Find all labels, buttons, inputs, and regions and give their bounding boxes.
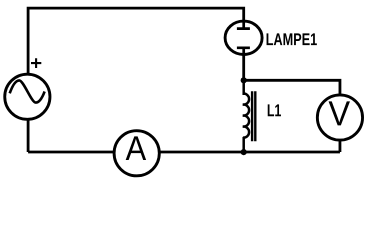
lamp LAMPE1 xyxy=(225,21,262,55)
junction node top xyxy=(241,77,247,83)
wire: inductor branch stubs xyxy=(242,80,245,152)
voltmeter circle xyxy=(317,95,362,140)
voltmeter V xyxy=(317,95,362,140)
letter A xyxy=(126,136,146,160)
AC source V1 xyxy=(5,58,50,119)
inductor L1 core lines xyxy=(252,91,255,141)
polarity mark + xyxy=(31,58,41,68)
wire: left loop (left vertical, top horizontal, lamp branch vertical) xyxy=(28,8,244,152)
lamp envelope xyxy=(225,21,262,54)
AC source sine wave xyxy=(10,80,45,102)
ammeter circle xyxy=(114,131,159,176)
ammeter A xyxy=(114,131,159,176)
label L1 xyxy=(268,104,281,116)
wire: voltmeter branch (top junction to V top, V bottom to bottom wire) xyxy=(244,80,340,152)
lamp electrodes xyxy=(237,21,250,55)
letter V xyxy=(329,101,350,125)
wire: bottom horizontal xyxy=(28,151,340,154)
label LAMPE1 xyxy=(267,33,317,45)
AC source circle xyxy=(5,74,50,119)
inductor L1 coil xyxy=(243,94,249,138)
junction node bottom xyxy=(241,149,247,155)
